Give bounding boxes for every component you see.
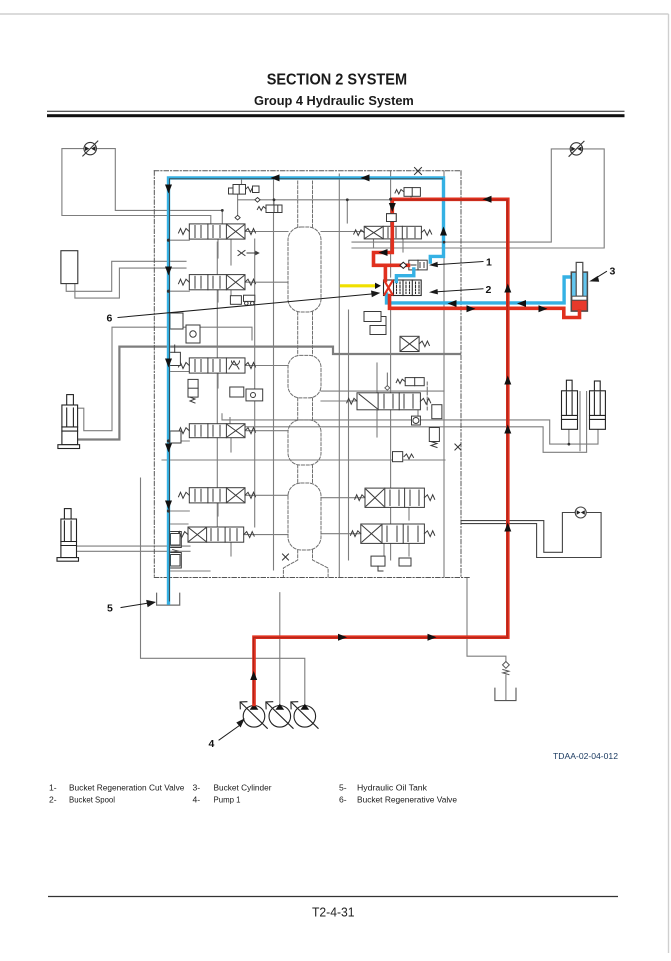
svg-text:T2-4-31: T2-4-31: [312, 905, 355, 920]
footer page number: [312, 905, 355, 920]
wire across at R2 top: [321, 390, 444, 392]
yellow highlight dashed: [342, 284, 375, 287]
red crossover in spool: [385, 281, 393, 295]
label 1: [486, 257, 492, 269]
svg-text:Hydraulic Oil Tank: Hydraulic Oil Tank: [357, 783, 428, 793]
valve L1: [179, 224, 256, 239]
drain filter bottom right: [503, 662, 510, 675]
relief pair bottom-left: [169, 532, 182, 569]
valve L3: [179, 358, 256, 373]
svg-text:2: 2: [486, 284, 492, 296]
wire long verticals inside block: [255, 171, 444, 577]
label 2: [486, 284, 492, 296]
header double rule: [47, 111, 625, 117]
solenoid valve top-left of block: [229, 185, 260, 195]
small vertical valve pair under L3: [188, 379, 198, 403]
red pump to top run: [254, 199, 508, 704]
wire tank gallery across block: [162, 242, 445, 560]
valve block dashed boundary: [154, 171, 470, 578]
label 2 leader: [429, 289, 483, 295]
junction dots: [167, 198, 570, 513]
red cylinder line right arrows: [467, 305, 476, 312]
blue spool to cylinder run: [387, 277, 572, 303]
page top edge: [0, 13, 669, 15]
regen valve parts under spool: [364, 312, 386, 335]
svg-text:4: 4: [209, 738, 215, 750]
red riser up arrows: [504, 376, 511, 385]
svg-text:TDAA-02-04-012: TDAA-02-04-012: [553, 751, 618, 761]
svg-text:Bucket Regenerative Valve: Bucket Regenerative Valve: [357, 795, 457, 805]
group subtitle: [254, 93, 414, 108]
wire mid cylinder rod side: [78, 327, 252, 431]
red left arrow mid: [379, 249, 388, 256]
label 3 leader: [589, 272, 606, 282]
blue top left arrows: [271, 174, 280, 181]
circuit line core over red: [253, 200, 507, 703]
valve R2 arm: [347, 393, 431, 410]
arm cylinder B right: [590, 381, 606, 429]
blue through regen cut valve: [396, 269, 413, 282]
red bottom right arrows: [338, 634, 347, 641]
svg-text:1-: 1-: [49, 783, 57, 793]
label 4: [209, 738, 215, 750]
valve R1 travel: [354, 226, 432, 239]
orifice diamond on red line: [400, 262, 407, 268]
svg-text:5-: 5-: [339, 783, 347, 793]
wire top-right motor loop: [352, 149, 604, 248]
flow meter loop right side: [461, 507, 601, 558]
label 5 leader: [121, 600, 156, 608]
svg-text:Group 4 Hydraulic System: Group 4 Hydraulic System: [254, 93, 414, 108]
red spool to cylinder run: [390, 296, 580, 318]
check valve with X right: [400, 336, 429, 351]
red top left arrows: [483, 196, 492, 203]
svg-text:SECTION 2 SYSTEM: SECTION 2 SYSTEM: [267, 72, 407, 89]
drain tank bottom right: [495, 688, 516, 700]
valve L4: [179, 424, 256, 438]
bucket regeneration cut valve 1: [409, 260, 427, 270]
circuit line core over blue: [169, 179, 442, 601]
label 6: [107, 313, 113, 325]
solenoid valve top right: [395, 188, 420, 197]
svg-text:Pump 1: Pump 1: [214, 795, 241, 805]
blue down arrows on return drop: [165, 185, 172, 194]
valve L6: [177, 527, 254, 542]
blue up arrow right side: [440, 227, 447, 236]
wire pilot pump left loop: [62, 149, 222, 224]
circle component right: [412, 416, 421, 425]
R2 pilot dashed line and port diamond: [385, 373, 427, 412]
closed port x right column: [455, 444, 461, 450]
wire mid cylinder bottom side (heavy): [78, 347, 460, 440]
wire right cylinders bottom line: [222, 392, 598, 453]
pilot check diamonds: [235, 198, 260, 220]
pump 1: [240, 702, 267, 729]
relief valve a right: [432, 405, 442, 419]
bucket spool 2: [384, 280, 422, 296]
relief valve left column small: [169, 345, 180, 366]
label 4 leader: [219, 718, 245, 740]
wire accumulator to valve L2: [66, 261, 186, 298]
footer rule: [48, 896, 618, 898]
blue cylinder line left arrows: [448, 300, 457, 307]
svg-text:3: 3: [610, 266, 616, 278]
arm cylinder A right: [562, 380, 578, 429]
wire bottom-left cylinder ports: [77, 546, 191, 551]
closed-port symbol with arrow: [238, 251, 260, 256]
svg-text:6: 6: [107, 313, 113, 325]
valve L2: [179, 275, 256, 290]
blue top run: [169, 178, 444, 603]
legend: [49, 783, 457, 805]
small valve mid right: [396, 378, 424, 386]
red up arrow pump riser: [250, 671, 257, 680]
red down arrow at valve entry: [389, 203, 396, 212]
regen assembly under L3: [230, 387, 263, 401]
relief valve left low: [170, 431, 181, 443]
svg-text:Bucket Spool: Bucket Spool: [69, 795, 115, 805]
red branch into spool: [384, 265, 388, 280]
wire misc port stubs: [218, 239, 418, 556]
section title: [267, 72, 407, 89]
wire pilot line top inside block: [238, 178, 411, 223]
page right edge: [668, 14, 670, 953]
solenoid valve b top-left: [257, 205, 282, 213]
pilot boxes on return line: [170, 313, 200, 343]
svg-text:Bucket Cylinder: Bucket Cylinder: [214, 783, 272, 793]
svg-text:3-: 3-: [193, 783, 201, 793]
wire valve feed stubs from return line: [169, 240, 211, 571]
svg-text:2-: 2-: [49, 795, 57, 805]
motor top-right: [569, 141, 584, 156]
restrictor with M: [393, 452, 414, 462]
yellow line arrowhead: [375, 283, 381, 289]
label 5: [107, 603, 113, 615]
closed port x near funnel: [283, 554, 289, 560]
accumulator left: [61, 251, 78, 284]
svg-text:1: 1: [486, 257, 492, 269]
pressure comp assembly left: [230, 295, 254, 305]
valve R3: [355, 488, 435, 507]
pump 3: [291, 702, 318, 729]
pilot pump top-left: [83, 141, 98, 156]
svg-text:4-: 4-: [193, 795, 201, 805]
pilot box over red riser: [387, 214, 397, 222]
cylinder bottom-left: [57, 509, 79, 562]
svg-text:5: 5: [107, 603, 113, 615]
label 3: [610, 266, 616, 278]
pump 2: [266, 702, 293, 729]
label 1 leader: [429, 262, 483, 268]
center bypass passage chain: [283, 181, 328, 577]
wire valve to bypass-chain connectors: [244, 232, 365, 535]
wire valve block to filter: [467, 578, 506, 701]
hydraulic oil tank 5: [157, 593, 180, 605]
wire tank drain to pump3: [141, 478, 305, 705]
pilot box above R1: [387, 214, 397, 222]
relief valve b right: [429, 428, 439, 448]
svg-text:Bucket Regeneration Cut Valve: Bucket Regeneration Cut Valve: [69, 783, 185, 793]
figure code TDAA-02-04-012: [553, 751, 618, 761]
closed port x on top boundary: [415, 168, 422, 175]
boom cylinder left-middle: [58, 395, 80, 449]
valve R4: [351, 524, 435, 543]
valve L5: [179, 488, 256, 503]
small comps bottom of right column: [371, 556, 411, 571]
svg-text:6-: 6-: [339, 795, 347, 805]
label 6 leader: [118, 291, 380, 318]
